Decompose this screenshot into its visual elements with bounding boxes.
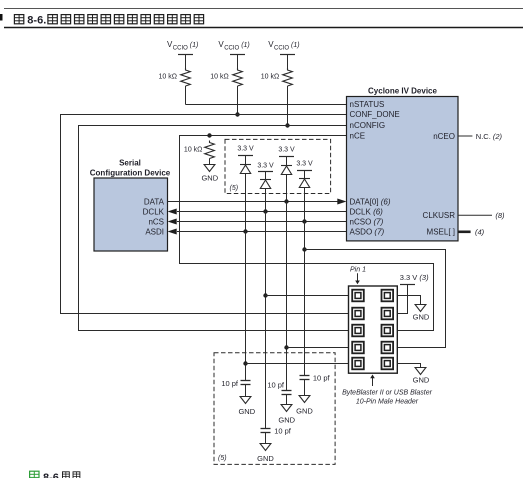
- svg-text:10 pf: 10 pf: [221, 379, 239, 388]
- junction D1/ASDI: [243, 229, 247, 233]
- svg-text:GND: GND: [296, 406, 313, 415]
- arrowhead DCLK into serial device: [168, 209, 177, 215]
- svg-text:8-6.: 8-6.: [27, 15, 46, 27]
- svg-text:3.3 V: 3.3 V: [278, 146, 295, 153]
- ground header upper: [415, 305, 426, 312]
- title bottom rule: [4, 27, 523, 29]
- svg-text:Serial: Serial: [119, 158, 141, 167]
- wire C1 to gnd: [245, 385, 247, 397]
- diode D2: [260, 180, 271, 189]
- diode D1: [240, 165, 251, 174]
- wire nCS branch to header pin8: [305, 250, 446, 348]
- diode D2 supply bar: [258, 171, 273, 173]
- wire R3 to nCONFIG: [287, 86, 289, 126]
- svg-text:CONF_DONE: CONF_DONE: [350, 110, 400, 119]
- wire D4 anode to nCS: [304, 188, 306, 222]
- power VCCIO1 bar: [178, 54, 193, 56]
- wire CONF_DONE loop to header pin3: [61, 115, 349, 314]
- figure title 图 8-6. 在系统编程的串行配置器件: [14, 15, 203, 27]
- arrow Pin 1 pointer: [357, 273, 359, 281]
- svg-text:GND: GND: [278, 415, 295, 424]
- svg-text:Cyclone IV Device: Cyclone IV Device: [368, 87, 437, 96]
- svg-text:10 pf: 10 pf: [267, 381, 285, 390]
- svg-text:10 kΩ: 10 kΩ: [210, 74, 228, 81]
- svg-text:GND: GND: [413, 375, 430, 384]
- junction ASDI branch to header pin9: [243, 361, 247, 365]
- header pin 8: [382, 342, 394, 354]
- svg-text:MSEL[ ]: MSEL[ ]: [427, 228, 455, 237]
- wire C4 to gnd: [265, 433, 267, 444]
- header pin 2: [382, 290, 394, 302]
- svg-text:ASDO (7): ASDO (7): [350, 228, 385, 237]
- ground C2: [281, 405, 292, 412]
- wire pin2 to ground: [397, 296, 420, 305]
- svg-text:CCIO: CCIO: [274, 46, 289, 52]
- junction DATA branch to header pin7: [284, 345, 288, 349]
- svg-text:GND: GND: [201, 173, 218, 182]
- diode D1 supply bar: [238, 155, 253, 157]
- wire C2 to gnd: [286, 395, 288, 405]
- header pin 4: [382, 308, 394, 320]
- svg-text:3.3 V (3): 3.3 V (3): [400, 273, 429, 282]
- power bar 3.3V header: [400, 284, 415, 286]
- svg-text:GND: GND: [257, 454, 274, 463]
- header pin 3: [352, 308, 364, 320]
- svg-text:GND: GND: [238, 407, 255, 416]
- wire VCCIO3 to R3: [287, 55, 289, 69]
- ground below R4: [204, 165, 215, 172]
- wire D4: [304, 171, 306, 179]
- svg-text:3.3 V: 3.3 V: [296, 160, 313, 167]
- header box 10-pin: [349, 286, 398, 373]
- svg-text:nSTATUS: nSTATUS: [350, 100, 385, 109]
- svg-text:DCLK: DCLK: [143, 207, 165, 216]
- svg-text:(1): (1): [241, 42, 250, 49]
- svg-text:nCONFIG: nCONFIG: [350, 121, 386, 130]
- wire nCS: [177, 221, 347, 223]
- svg-text:CLKUSR: CLKUSR: [423, 211, 456, 220]
- resistor R4 10k pull-down nCE: [205, 141, 215, 159]
- svg-text:ASDI: ASDI: [145, 228, 164, 237]
- wire nSTATUS: [186, 104, 347, 106]
- arrowhead DATA into Cyclone: [337, 199, 346, 205]
- svg-text:DCLK (6): DCLK (6): [350, 207, 384, 216]
- wire D1 anode to ASDI: [245, 174, 247, 232]
- ground C1: [240, 397, 251, 404]
- svg-text:nCSO (7): nCSO (7): [350, 218, 384, 227]
- wire D2: [265, 172, 267, 180]
- wire DCLK branch to header pin1: [266, 295, 349, 297]
- ground C3: [299, 396, 310, 403]
- junction D3/DATA: [284, 199, 288, 203]
- svg-text:10-Pin Male Header: 10-Pin Male Header: [356, 398, 419, 405]
- svg-text:CCIO: CCIO: [173, 46, 188, 52]
- svg-text:3.3 V: 3.3 V: [257, 162, 274, 169]
- svg-text:10 kΩ: 10 kΩ: [184, 147, 202, 154]
- junction DCLK branch to header pin1: [263, 293, 267, 297]
- wire ASDI branch to header pin9: [246, 363, 349, 365]
- wire D2 vertical down to cap: [265, 212, 267, 429]
- diode D4 supply bar: [297, 170, 312, 172]
- junction R2/CONF_DONE: [235, 112, 239, 116]
- junction D2/DCLK: [263, 209, 267, 213]
- svg-text:DATA[0] (6): DATA[0] (6): [350, 197, 391, 206]
- capacitor C4 (DCLK line): [261, 429, 271, 433]
- arrowhead ASDI into serial device: [168, 229, 177, 235]
- wire D3: [286, 157, 288, 166]
- ground header lower: [415, 368, 426, 375]
- arrowhead nCS into serial device: [168, 219, 177, 225]
- wire DATA: [168, 201, 339, 203]
- resistor R2 10k pull-up CONF_DONE: [233, 68, 243, 86]
- Cyclone IV Device box: [347, 97, 459, 241]
- svg-text:(4): (4): [475, 228, 485, 237]
- junction D4/nCS: [302, 219, 306, 223]
- header pin 5: [352, 325, 364, 337]
- svg-text:N.C. (2): N.C. (2): [476, 132, 503, 141]
- svg-text:(5): (5): [230, 185, 239, 192]
- junction nCE/R4: [207, 133, 211, 137]
- wire R1 to nSTATUS: [185, 86, 187, 105]
- svg-text:DATA: DATA: [144, 197, 165, 206]
- arrow ByteBlaster pointer: [372, 377, 374, 386]
- header pin 10: [382, 358, 394, 370]
- wire D3 anode to DATA: [286, 175, 288, 202]
- svg-text:CCIO: CCIO: [224, 46, 239, 52]
- svg-text:Configuration Device: Configuration Device: [90, 168, 171, 177]
- wire VCCIO1 to R1: [185, 55, 187, 69]
- resistor R3 10k pull-up nCONFIG: [283, 68, 293, 86]
- capacitor C1 (ASDI line): [241, 381, 251, 385]
- wire D4 vertical down to cap: [304, 222, 306, 376]
- svg-text:10 kΩ: 10 kΩ: [159, 74, 177, 81]
- diode D4: [299, 179, 310, 188]
- svg-text:(1): (1): [291, 42, 300, 49]
- wire VCCIO2 to R2: [237, 55, 239, 69]
- header pin 6: [382, 325, 394, 337]
- power VCCIO2 label: [218, 40, 249, 51]
- svg-text:(8): (8): [495, 211, 505, 220]
- wire D2 anode to DCLK: [265, 189, 267, 212]
- svg-text:10 pf: 10 pf: [274, 427, 292, 436]
- capacitor C2 (DATA line): [282, 391, 292, 395]
- bottom note 图 8-6 注释 (green link, clipped): [30, 471, 80, 478]
- dashed clamp diode box: [225, 139, 331, 193]
- svg-text:nCEO: nCEO: [433, 132, 455, 141]
- header pin 9: [352, 358, 364, 370]
- header pin 7: [352, 342, 364, 354]
- Serial Configuration Device box: [94, 178, 168, 251]
- power VCCIO2 bar: [230, 54, 245, 56]
- svg-text:Pin 1: Pin 1: [350, 267, 366, 274]
- wire ASDI: [177, 231, 347, 233]
- resistor R1 10k pull-up nSTATUS: [181, 68, 191, 86]
- svg-text:nCE: nCE: [350, 132, 366, 141]
- wire D1: [245, 156, 247, 165]
- title top rule: [4, 8, 523, 10]
- header pin 1: [352, 290, 364, 302]
- junction R3/nCONFIG: [285, 123, 289, 127]
- wire D1 vertical down to cap: [245, 232, 247, 381]
- diode D3: [281, 166, 292, 175]
- svg-text:8-6: 8-6: [43, 472, 59, 478]
- diode D3 supply bar: [279, 156, 294, 158]
- power VCCIO3 bar: [280, 54, 295, 56]
- power VCCIO3 label: [268, 40, 299, 51]
- wire nCEO to N.C.: [458, 135, 472, 137]
- svg-text:nCS: nCS: [148, 218, 164, 227]
- wire MSEL bus: [458, 231, 471, 234]
- ground C4: [260, 444, 271, 451]
- svg-text:10 pf: 10 pf: [313, 374, 331, 383]
- wire nCONFIG loop to header pin5: [79, 126, 349, 331]
- wire 3.3V to pin4: [397, 285, 407, 314]
- svg-text:ByteBlaster II or USB Blaster: ByteBlaster II or USB Blaster: [342, 389, 433, 396]
- svg-text:GND: GND: [413, 312, 430, 321]
- wire DATA branch to header pin7: [287, 347, 349, 349]
- power VCCIO1 label: [167, 40, 198, 51]
- capacitor C3 (nCS line): [300, 376, 310, 380]
- bottom dashed capacitor box: [214, 353, 335, 465]
- wire pin10 to ground: [397, 364, 420, 368]
- wire D3 vertical down to cap: [286, 202, 288, 391]
- svg-text:(1): (1): [190, 42, 199, 49]
- svg-text:3.3 V: 3.3 V: [237, 145, 254, 152]
- wire R4 to ground: [209, 159, 211, 165]
- wire C3 to gnd: [304, 380, 306, 396]
- wire R2 to CONF_DONE: [237, 86, 239, 115]
- wire CLKUSR: [458, 214, 492, 216]
- wire nCE loop to header pin6: [180, 136, 434, 331]
- svg-text:10 kΩ: 10 kΩ: [261, 74, 279, 81]
- junction nCS branch: [302, 247, 306, 251]
- svg-text:(5): (5): [218, 455, 227, 462]
- wire DCLK: [177, 211, 347, 213]
- left margin change bar: [0, 14, 3, 21]
